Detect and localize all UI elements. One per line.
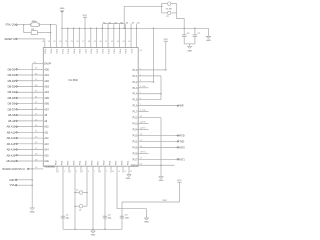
svg-text:ALE: ALE xyxy=(44,160,49,163)
svg-text:VSS: VSS xyxy=(10,184,15,187)
right pin 7 P1.6 wire xyxy=(133,104,184,108)
svg-text:GND: GND xyxy=(206,40,211,42)
svg-text:AB-A9: AB-A9 xyxy=(8,120,16,123)
left pin 24 net AB-A11 wire xyxy=(7,131,49,135)
svg-text:AD4: AD4 xyxy=(44,91,49,94)
svg-text:P3.6: P3.6 xyxy=(133,153,138,155)
oscillator right rail wire to rail xyxy=(177,4,185,29)
wire bottom col13 to ground xyxy=(128,173,130,175)
svg-text:AD3: AD3 xyxy=(44,85,49,88)
capacitor C6 to ground xyxy=(182,28,190,44)
right pin 17 P3.7 wire xyxy=(133,158,186,162)
left pin 33 net DB-D6 wire xyxy=(8,102,50,106)
bottom pin stub col 2 xyxy=(62,160,66,173)
left GND bus flag xyxy=(30,208,35,214)
left pin 37 net DB-D2 wire xyxy=(8,79,50,83)
left pin 26 net AB-A13 wire xyxy=(7,142,50,146)
svg-text:AB-A12: AB-A12 xyxy=(7,137,16,140)
svg-text:A10: A10 xyxy=(44,126,49,129)
svg-text:Y1 4M: Y1 4M xyxy=(166,8,172,10)
bottom pin stub col 4 xyxy=(74,160,78,173)
svg-text:DB-D3: DB-D3 xyxy=(8,85,16,88)
wire rail stub to top pin col 9 xyxy=(90,28,92,48)
bottom pin stub col 8 xyxy=(98,160,102,173)
right pin 12 P3.6 wire xyxy=(133,152,149,156)
wire rail stub to top pin col 7 xyxy=(79,28,81,48)
svg-text:P3.4: P3.4 xyxy=(133,130,138,132)
ferrite bead L2 xyxy=(75,205,87,212)
left pin 38 net DB-D1 wire xyxy=(8,73,50,77)
capacitor C3 xyxy=(120,214,130,219)
left pin 21 net AB-A8 wire xyxy=(8,114,48,118)
right pin 15 P3.4 wire xyxy=(133,128,149,132)
left pin 34 net DB-D5 wire xyxy=(8,96,50,100)
wire rail stub to top pin col 15 xyxy=(125,22,130,47)
right pin 3 P1.2 wire xyxy=(133,80,154,84)
right pin 20 PSEN wire xyxy=(131,164,174,168)
svg-text:P3.1: P3.1 xyxy=(133,141,138,143)
ground G2 top right xyxy=(187,46,192,52)
ground G4 right xyxy=(159,177,164,183)
svg-text:AB-A8: AB-A8 xyxy=(8,114,16,117)
bottom pin stub col 1 xyxy=(56,160,60,173)
svg-text:IC1 8032: IC1 8032 xyxy=(69,80,79,82)
svg-text:P1.3: P1.3 xyxy=(133,88,138,90)
svg-text:AB-A13: AB-A13 xyxy=(7,143,16,146)
resistor R1 xyxy=(31,29,37,35)
bottom pin stub col 11 xyxy=(116,160,121,173)
wire rail stub to top pin col 5 xyxy=(67,28,69,48)
wire bottom col7 to rail xyxy=(92,173,94,230)
svg-text:DB-D2: DB-D2 xyxy=(8,80,16,83)
left pin 25 net AB-A12 wire xyxy=(7,136,50,140)
svg-text:AB-A15: AB-A15 xyxy=(7,154,16,157)
right pin 4 P1.3 wire xyxy=(133,86,149,90)
resonator Y2 xyxy=(162,11,177,18)
svg-text:P3.3: P3.3 xyxy=(133,124,138,126)
right pin 11 P3.1 wire xyxy=(133,140,185,144)
wire rail stub to top pin col 14 xyxy=(119,22,124,47)
left pin 28 net AB-A15 wire xyxy=(7,154,50,158)
svg-text:P1.1: P1.1 xyxy=(133,76,138,78)
svg-text:100n: 100n xyxy=(125,217,129,219)
svg-text:VSS/GND: VSS/GND xyxy=(44,166,55,168)
svg-text:P1.4: P1.4 xyxy=(133,94,138,96)
svg-text:P1.2: P1.2 xyxy=(133,82,138,84)
left pin 27 net AB-A14 wire xyxy=(7,148,50,152)
svg-text:GND: GND xyxy=(91,235,96,237)
svg-text:AB-A11: AB-A11 xyxy=(7,131,16,134)
svg-text:GND: GND xyxy=(159,180,164,182)
wire rail stub to top pin col 8 xyxy=(84,28,86,47)
schematic canvas xyxy=(0,0,219,239)
left pin 30 net AB-ALE wire xyxy=(6,159,49,163)
left GND bus wire xyxy=(31,64,33,208)
bottom pin stub col 10 xyxy=(110,160,115,173)
right pin 10 P3.0 wire xyxy=(133,134,185,138)
right pin 8 P1.7 wire xyxy=(133,110,149,114)
ground G7 bottom rail xyxy=(91,229,96,236)
svg-text:TXD: TXD xyxy=(180,140,185,143)
svg-text:P3.2: P3.2 xyxy=(133,118,138,120)
svg-text:P3.0: P3.0 xyxy=(133,135,138,137)
right pin 6 P1.5 wire xyxy=(133,98,161,102)
right pin 2 P1.1 wire xyxy=(133,74,161,78)
left pin 22 net AB-A9 wire xyxy=(8,119,48,123)
net flag row y185.2 xyxy=(10,184,33,187)
wire right k1 down to k5 xyxy=(160,76,162,100)
svg-text:A13: A13 xyxy=(44,143,49,146)
svg-text:A14: A14 xyxy=(44,149,49,152)
wire XTAL to pin 19 xyxy=(50,25,52,48)
ground G3 rail end xyxy=(206,28,211,42)
svg-text:P3.5: P3.5 xyxy=(133,147,138,149)
svg-text:GND: GND xyxy=(187,50,192,52)
wire rail stub to top pin col 17 xyxy=(136,22,143,52)
svg-text:DB-D0: DB-D0 xyxy=(8,68,16,71)
net label P1 wire to top pin 1 xyxy=(5,38,45,48)
svg-text:XTAL-Q1: XTAL-Q1 xyxy=(5,24,15,27)
svg-text:A12: A12 xyxy=(44,137,49,140)
wire osc horizontal xyxy=(124,6,162,8)
bottom pin stub col 13 xyxy=(128,160,133,173)
bottom pin stub col 6 xyxy=(86,160,90,173)
svg-text:P1.7: P1.7 xyxy=(133,112,138,114)
wire right k8 down to GND xyxy=(160,118,162,177)
svg-text:P1.6: P1.6 xyxy=(133,106,138,108)
svg-text:GND: GND xyxy=(30,211,35,213)
ground G6 xyxy=(126,175,131,181)
wire bottom col4 to rail xyxy=(74,173,76,230)
bottom pin stub col 5 xyxy=(80,160,84,173)
wire rail stub to top pin col 13 xyxy=(113,22,118,47)
wire bottom col2 to rail xyxy=(62,173,64,230)
svg-text:DB-D6: DB-D6 xyxy=(8,103,16,106)
bottom pin stub col 12 xyxy=(122,160,127,173)
svg-text:GND: GND xyxy=(60,8,65,10)
oscillator left rail wire xyxy=(161,4,163,13)
svg-text:GND: GND xyxy=(126,178,131,180)
net flag row y179.8 xyxy=(9,179,33,182)
svg-text:VCC: VCC xyxy=(83,15,88,17)
crystal Q1 xyxy=(30,21,39,27)
wire rail drop to right field xyxy=(153,28,155,83)
wire rail stub to top pin col 10 xyxy=(96,28,98,48)
ground G5 xyxy=(144,218,149,224)
right pin 16 P3.5 wire xyxy=(133,146,186,150)
left pin 35 net DB-D4 wire xyxy=(8,91,50,95)
power flag VCC bottom right xyxy=(177,180,182,202)
svg-text:GND: GND xyxy=(9,179,15,182)
svg-text:AB-ALE: AB-ALE xyxy=(6,160,15,163)
power flag VCC top xyxy=(83,15,88,29)
left pin 23 net AB-A10 wire xyxy=(7,125,50,129)
right pin 13 P3.2 wire xyxy=(133,116,161,120)
svg-text:DB-D7: DB-D7 xyxy=(8,108,16,111)
svg-text:AD6: AD6 xyxy=(44,103,49,106)
svg-text:P3.7: P3.7 xyxy=(133,159,138,161)
svg-text:AD7: AD7 xyxy=(44,108,49,111)
svg-text:VCC: VCC xyxy=(163,200,168,202)
svg-text:AD0: AD0 xyxy=(44,68,49,71)
svg-text:AB-A14: AB-A14 xyxy=(7,149,16,152)
wire osc feed to top sub-rail xyxy=(104,6,125,29)
wire bottom col9 to rail xyxy=(104,173,106,230)
wire XTAL to pin 18 xyxy=(55,25,57,48)
bottom pin stub col 3 xyxy=(68,160,72,173)
svg-text:BOARD GND/VSS 16: BOARD GND/VSS 16 xyxy=(3,168,26,171)
svg-text:A15: A15 xyxy=(44,154,49,157)
right pin 14 P3.3 wire xyxy=(133,122,149,126)
resonator Y1 xyxy=(162,2,177,11)
bottom pin stub col 7 xyxy=(92,160,96,173)
left pin 32 net DB-D7 wire xyxy=(8,108,50,112)
capacitor C1 xyxy=(61,214,70,219)
capacitor C7 to ground xyxy=(193,28,201,44)
svg-text:INT1: INT1 xyxy=(180,158,186,161)
net label XTAL1 wire xyxy=(5,24,56,27)
wire rail stub to top pin col 11 xyxy=(102,22,107,47)
power flag VCC right xyxy=(164,39,169,70)
svg-text:DB-D4: DB-D4 xyxy=(8,91,16,94)
svg-text:PSEN: PSEN xyxy=(131,165,138,167)
svg-text:DB-D5: DB-D5 xyxy=(8,97,16,100)
left pin 36 net DB-D3 wire xyxy=(8,85,50,89)
left pin 39 net DB-D0 wire xyxy=(8,68,50,72)
right pin 5 P1.4 wire xyxy=(133,92,162,96)
svg-text:AD5: AD5 xyxy=(44,97,49,100)
ground flag G1 top xyxy=(60,8,65,12)
svg-text:EA/VP: EA/VP xyxy=(44,63,51,66)
svg-text:AD2: AD2 xyxy=(44,80,49,83)
svg-text:RXD: RXD xyxy=(180,134,185,137)
right pin 1 P1.0 wire xyxy=(133,68,166,72)
svg-text:INT0: INT0 xyxy=(180,146,186,149)
capacitor C2 xyxy=(103,214,112,219)
wire bottom col11 to ground right xyxy=(117,173,147,218)
svg-text:WR: WR xyxy=(180,105,184,108)
wire GND to pin 20 xyxy=(61,13,63,48)
svg-text:RESET-N: RESET-N xyxy=(5,38,16,41)
svg-text:GND: GND xyxy=(144,222,149,224)
node GND row long label xyxy=(3,166,56,170)
wire rail stub to top pin col 6 xyxy=(73,28,75,48)
pin 31 EA wire (row 0) xyxy=(32,62,51,66)
wire caps join xyxy=(184,44,195,47)
wire crystal branch right xyxy=(37,32,51,34)
wire VCC bottom to cap xyxy=(122,200,180,229)
svg-text:DB-D1: DB-D1 xyxy=(8,74,16,77)
IC U1 body xyxy=(43,48,138,167)
wire VCC rail top xyxy=(62,27,208,29)
wire rail stub to top pin col 12 xyxy=(107,22,112,47)
wire bottom ground rail xyxy=(63,228,122,230)
wire bottom col6 down xyxy=(86,173,88,207)
wire crystal branch left xyxy=(24,25,32,33)
svg-text:AD1: AD1 xyxy=(44,74,49,77)
ferrite bead L1 xyxy=(75,190,87,195)
svg-text:P1.5: P1.5 xyxy=(133,100,138,102)
bottom pin stub col 9 xyxy=(104,160,108,173)
wire rail stub to top pin col 16 xyxy=(130,22,135,47)
svg-text:AB-A10: AB-A10 xyxy=(7,126,16,129)
svg-text:P1.0: P1.0 xyxy=(133,70,138,72)
